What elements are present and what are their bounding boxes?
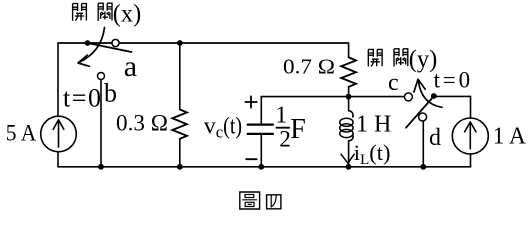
switch y contact c circle — [404, 93, 412, 101]
current source 5A circle — [41, 116, 77, 152]
switch x contact a circle — [112, 39, 119, 46]
fraction bar of 1/2 — [277, 127, 290, 129]
junction switch y pivot — [431, 93, 437, 99]
wire right rail lower — [470, 154, 472, 167]
plus sign of vc — [245, 96, 256, 107]
svg-text:vc(t): vc(t) — [204, 114, 242, 142]
junction node 0.3-ohm top — [177, 40, 183, 46]
wire capacitor bottom stub — [260, 135, 262, 167]
svg-text:2: 2 — [279, 126, 291, 152]
svg-text:0.7 Ω: 0.7 Ω — [283, 54, 335, 78]
svg-text:a: a — [124, 50, 137, 83]
resistor R 0.3 ohm zigzag — [172, 109, 187, 138]
junction node C bottom — [258, 164, 264, 170]
switch x throw arc arrow — [79, 28, 105, 63]
svg-text:t=0: t=0 — [63, 83, 101, 112]
svg-text:1: 1 — [275, 103, 287, 129]
current source 5A arrow — [53, 120, 64, 147]
label switch x CJK 關 — [98, 3, 112, 21]
wire capacitor top stub — [260, 97, 262, 124]
switch x blade — [88, 43, 132, 52]
svg-text:0.3 Ω: 0.3 Ω — [116, 110, 168, 136]
wire branch d — [422, 121, 424, 167]
svg-text:F: F — [290, 114, 306, 145]
inductor L 1 H coil — [349, 97, 353, 117]
resistor R 0.7 ohm zigzag — [341, 57, 356, 87]
label switch y CJK 關 — [394, 49, 408, 67]
junction node d bottom — [420, 164, 426, 170]
svg-text:b: b — [104, 79, 117, 108]
switch y contact d circle — [419, 113, 427, 121]
wire switch-y pivot to right rail — [434, 95, 471, 97]
svg-text:1 A: 1 A — [493, 123, 526, 150]
svg-text:5 A: 5 A — [6, 120, 37, 145]
switch y blade — [406, 97, 434, 128]
minus sign of vc — [246, 158, 257, 160]
switch y throw arc arrow — [418, 80, 442, 108]
junction dot top-left pivot — [85, 40, 91, 46]
svg-text:c: c — [388, 70, 399, 96]
junction node 0.3-ohm bottom — [177, 164, 183, 170]
svg-text:d: d — [429, 125, 441, 151]
current source 1A circle — [452, 118, 488, 154]
current arrow iL(t) — [341, 154, 354, 163]
wire junction to contact c — [349, 96, 405, 98]
wire right rail upper — [470, 96, 472, 118]
svg-text:t=0: t=0 — [434, 68, 471, 93]
wire mid rail (capacitor top to junction) — [261, 96, 348, 98]
junction node mid (0.7/L/C) — [346, 94, 352, 100]
switch x contact b circle — [98, 73, 105, 80]
wire 0.3-ohm branch lower — [179, 139, 181, 167]
wire bottom rail — [58, 166, 471, 168]
junction node b bottom — [98, 164, 104, 170]
caption CJK 四 — [267, 195, 281, 209]
label switch y CJK 開 — [368, 49, 382, 66]
wire top rail — [58, 42, 348, 44]
wire 0.7-ohm branch lower stub — [348, 87, 350, 97]
wire 0.3-ohm branch upper — [179, 43, 181, 109]
svg-text:1 H: 1 H — [356, 111, 391, 137]
wire branch b — [100, 80, 102, 167]
label switch x CJK 開 — [73, 4, 87, 21]
wire left rail upper — [57, 43, 59, 116]
junction node L bottom — [346, 164, 352, 170]
wire 0.7-ohm branch upper — [348, 43, 350, 57]
wire left rail lower — [57, 152, 59, 167]
svg-text:(x): (x) — [113, 0, 141, 27]
caption CJK 圖 — [240, 192, 260, 209]
current source 1A arrow — [465, 122, 476, 149]
capacitor C 1/2 F plates — [248, 123, 273, 125]
svg-text:iL(t): iL(t) — [354, 140, 391, 168]
